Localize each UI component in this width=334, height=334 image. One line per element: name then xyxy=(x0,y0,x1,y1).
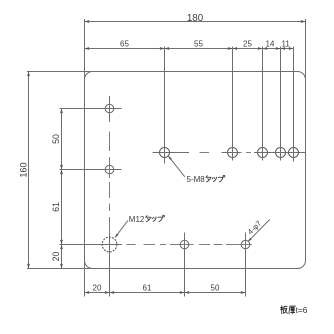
hole B phi7 (middle of left column) xyxy=(105,165,114,174)
svg-text:11: 11 xyxy=(282,39,291,48)
extension line y=169.7 through hole B xyxy=(60,169,122,171)
center line horizontal through M8 hole row xyxy=(153,152,190,154)
extension line x=184.5 through hole C xyxy=(184,233,186,297)
extension line y=108 through hole A xyxy=(60,108,122,110)
extension/center line x=280.3 through M8 hole 4 xyxy=(280,47,282,161)
extension/center line x=164.8 through M8 hole 1 xyxy=(164,47,166,164)
extension line x=109.6 lower solid run xyxy=(109,233,111,297)
svg-text:14: 14 xyxy=(266,39,275,48)
hole A phi7 (top of left column) xyxy=(105,104,114,113)
center line horizontal through bottom hole row xyxy=(127,244,136,246)
leader line for M12 tap note xyxy=(115,221,128,238)
M8 tap hole 2 xyxy=(228,148,238,158)
dimension line 65/55/25/14/11 xyxy=(85,48,294,50)
dimension line 180 xyxy=(85,21,306,23)
center line vertical through left hole column xyxy=(109,96,111,122)
extension line top (y=71.5 left) xyxy=(27,71,94,73)
leader line for 5-M8 tap note xyxy=(168,156,185,177)
note plate thickness t=6 xyxy=(281,306,296,314)
hole D phi7 (bottom row) xyxy=(241,240,250,249)
svg-text:55: 55 xyxy=(194,39,203,48)
svg-text:160: 160 xyxy=(18,162,28,177)
svg-text:61: 61 xyxy=(143,283,152,292)
leader line for 4-phi7 note xyxy=(248,219,270,241)
svg-text:20: 20 xyxy=(93,283,102,292)
extension/center line x=293.8 through M8 hole 5 xyxy=(293,47,295,162)
extension line y=244.3 to M12 center line xyxy=(60,244,123,246)
hole C phi7 (bottom row) xyxy=(180,240,189,249)
svg-text:20: 20 xyxy=(51,252,61,262)
extension line bottom (y=268 left) xyxy=(27,268,94,270)
extension/center line x=263.1 through M8 hole 3 xyxy=(262,47,264,161)
svg-text:180: 180 xyxy=(187,13,204,24)
extension line x=245.9 through hole D xyxy=(245,233,247,297)
svg-text:50: 50 xyxy=(211,283,220,292)
svg-text:50: 50 xyxy=(51,134,61,144)
hole M12 tap xyxy=(102,237,117,252)
dimension line 50/61/20 xyxy=(61,109,63,269)
extension line x=85 bottom xyxy=(84,252,86,297)
extension line right (x=306 top) xyxy=(305,19,307,80)
dimension line 20/61/50 xyxy=(85,292,246,294)
extension line left (x=85 top) xyxy=(84,19,86,80)
M8 tap hole 1 xyxy=(160,148,170,158)
dimension line 160 xyxy=(28,72,30,269)
svg-text:t=6: t=6 xyxy=(296,305,308,315)
M8 tap hole 5 xyxy=(289,148,299,158)
plate outline (180x160 plate, rounded corners) xyxy=(85,72,306,269)
M8 tap hole 4 xyxy=(276,148,286,158)
svg-text:65: 65 xyxy=(120,39,129,48)
svg-text:61: 61 xyxy=(51,202,61,212)
svg-text:M12: M12 xyxy=(129,215,145,224)
extension/center line x=232.4 through M8 hole 2 xyxy=(232,47,234,161)
M8 tap hole 3 xyxy=(258,148,268,158)
svg-text:25: 25 xyxy=(243,39,252,48)
svg-text:5-M8: 5-M8 xyxy=(187,175,206,184)
